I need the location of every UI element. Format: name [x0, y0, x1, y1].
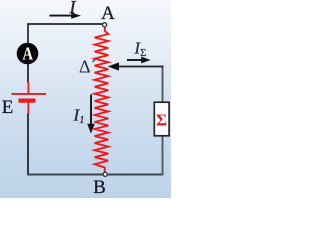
svg-text:Σ: Σ [156, 111, 167, 130]
wire right vertical lower (sigma box to bottom) [162, 136, 164, 176]
wire top horizontal from left corner to node A [27, 23, 103, 25]
sigma box [154, 102, 169, 136]
battery E long plate [12, 93, 47, 95]
current arrow I1 (down along resistor) [90, 95, 92, 126]
wiper wire horizontal [112, 66, 163, 68]
wire right vertical upper (wiper corner to sigma box) [162, 66, 164, 103]
wire left vertical upper (corner to ammeter) [27, 24, 29, 45]
svg-text:I: I [69, 0, 77, 17]
resistor Delta' zigzag [95, 27, 109, 172]
battery E red lead upper [27, 82, 29, 94]
battery E short thick plate [19, 98, 36, 102]
wire left vertical mid (ammeter to battery) [27, 64, 29, 83]
node A circle [103, 23, 107, 27]
svg-text:A: A [22, 43, 33, 64]
svg-text:Δ´: Δ´ [79, 57, 97, 77]
ammeter A (black circle) [17, 43, 39, 65]
svg-text:B: B [93, 177, 106, 198]
battery E red lead lower [27, 101, 29, 114]
svg-text:E: E [2, 97, 14, 118]
wire bottom horizontal [27, 174, 163, 176]
svg-text:A: A [101, 3, 115, 24]
node B circle [103, 172, 107, 176]
wire left vertical lower (battery to bottom corner) [27, 114, 29, 176]
current arrow I_sigma [127, 59, 143, 61]
wiper arrowhead pointing left at resistor [108, 62, 119, 70]
current arrow I (top) [50, 15, 73, 17]
